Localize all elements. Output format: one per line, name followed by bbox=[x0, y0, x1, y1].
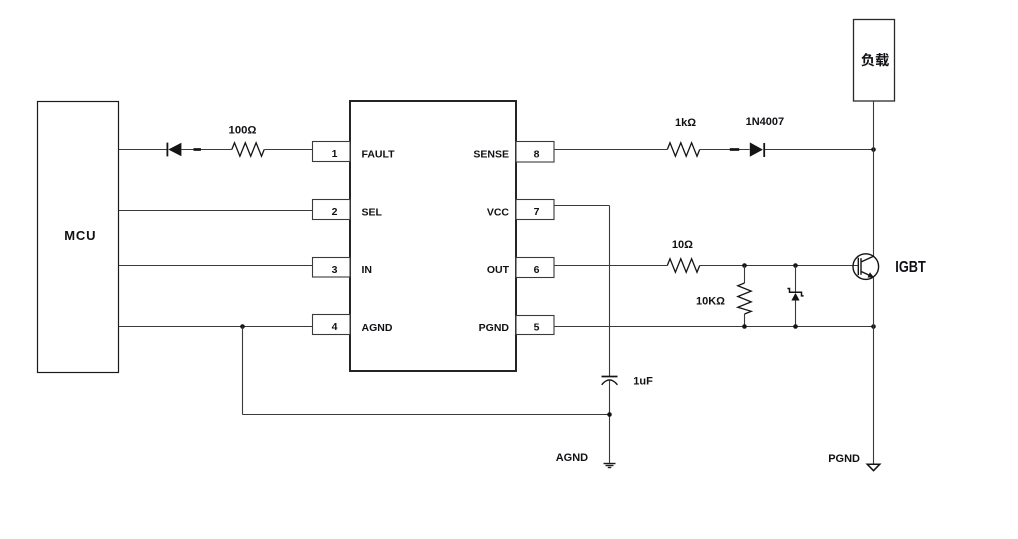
wire MCU to pin 2 (row 2) bbox=[119, 210, 313, 212]
svg-text:AGND: AGND bbox=[362, 322, 393, 334]
zener diode D3 top lead bbox=[795, 266, 797, 293]
MCU box bbox=[38, 102, 119, 373]
wire VCC vertical down to capacitor bbox=[609, 206, 611, 377]
svg-text:8: 8 bbox=[534, 148, 540, 160]
svg-text:FAULT: FAULT bbox=[362, 149, 396, 161]
wire capacitor to AGND junction bbox=[609, 380, 611, 463]
wire IGBT emitter down to PGND bbox=[873, 277, 875, 464]
junction dot D3 bottom bbox=[793, 324, 798, 329]
svg-text:5: 5 bbox=[534, 321, 540, 333]
wire pin 6 OUT to resistor R3 bbox=[554, 265, 667, 267]
svg-text:6: 6 bbox=[534, 264, 540, 276]
pin 4 box bbox=[313, 315, 351, 335]
load box bbox=[854, 20, 895, 102]
resistor R3 10ohm zigzag bbox=[667, 259, 699, 272]
svg-text:2: 2 bbox=[332, 206, 338, 218]
IGBT Q1 collector stroke bbox=[862, 256, 874, 262]
svg-text:10KΩ: 10KΩ bbox=[696, 296, 725, 308]
svg-text:OUT: OUT bbox=[487, 264, 510, 276]
svg-text:1N4007: 1N4007 bbox=[746, 116, 785, 128]
svg-text:SEL: SEL bbox=[362, 207, 383, 219]
wire MCU to diode D2 (row 1) bbox=[119, 149, 167, 151]
svg-text:1: 1 bbox=[332, 148, 338, 160]
resistor R4 bottom lead bbox=[744, 314, 746, 327]
svg-text:MCU: MCU bbox=[64, 228, 96, 243]
svg-text:100Ω: 100Ω bbox=[229, 124, 257, 136]
wire pin 8 to resistor R2 (SENSE row) bbox=[554, 149, 667, 151]
AGND ground symbol bbox=[604, 464, 616, 468]
IGBT Q1 gate/base double bar bbox=[857, 258, 859, 275]
dash mark on diode D2 anode wire bbox=[194, 148, 201, 151]
wire resistor R3 to IGBT gate bbox=[700, 265, 858, 267]
zener diode D3 bottom lead bbox=[795, 301, 797, 327]
svg-text:SENSE: SENSE bbox=[473, 149, 509, 161]
wire diode D1 to load line bbox=[765, 149, 874, 151]
pin 6 box bbox=[516, 258, 554, 278]
resistor R4 zigzag bbox=[738, 283, 751, 314]
diode D2 (points left) cathode bar bbox=[166, 143, 168, 157]
wire resistor R2 to diode D1 bbox=[700, 149, 750, 151]
svg-text:3: 3 bbox=[332, 264, 338, 276]
junction dot PGND/emitter bbox=[871, 324, 876, 329]
junction dot R4 top bbox=[742, 263, 747, 268]
resistor R1 100ohm zigzag bbox=[232, 143, 264, 156]
capacitor C1 top plate bbox=[602, 376, 618, 378]
IGBT Q1 emitter arrowhead bbox=[868, 272, 875, 277]
svg-text:1uF: 1uF bbox=[633, 375, 653, 387]
wire pin 7 VCC to corner bbox=[554, 205, 610, 207]
svg-text:10Ω: 10Ω bbox=[672, 239, 693, 251]
resistor R4 10K vertical: top lead bbox=[744, 266, 746, 284]
zener diode D3 cathode bar with bent ends bbox=[787, 289, 803, 296]
svg-text:AGND: AGND bbox=[556, 452, 588, 464]
junction dot on AGND wire bbox=[240, 324, 245, 329]
wire AGND branch vertical bbox=[242, 327, 244, 415]
pin 5 box bbox=[516, 316, 554, 335]
pin 1 box bbox=[313, 142, 351, 162]
IGBT Q1 circle bbox=[853, 254, 879, 280]
diode D2 triangle bbox=[168, 143, 181, 157]
svg-text:VCC: VCC bbox=[487, 207, 510, 219]
pin 7 box bbox=[516, 200, 554, 220]
wire load to IGBT collector bbox=[873, 101, 875, 257]
junction dot R4 bottom bbox=[742, 324, 747, 329]
IC U1 box bbox=[350, 101, 516, 371]
pin 3 box bbox=[313, 258, 351, 278]
wire pin 5 PGND row bbox=[554, 326, 874, 328]
wire diode D2 to resistor R1 bbox=[181, 149, 232, 151]
junction dot AGND net bbox=[607, 412, 612, 417]
svg-text:7: 7 bbox=[534, 206, 540, 218]
svg-text:PGND: PGND bbox=[828, 453, 860, 465]
capacitor C1 curved plate bbox=[602, 380, 618, 385]
diode D1 1N4007 triangle (points right) bbox=[750, 142, 763, 156]
wire resistor R1 to pin 1 bbox=[264, 149, 312, 151]
zener diode D3 triangle (points up) bbox=[791, 293, 799, 301]
PGND ground arrow bbox=[867, 464, 880, 471]
dash mark on diode D1 anode wire bbox=[730, 148, 739, 151]
junction dot D3 top bbox=[793, 263, 798, 268]
pin 8 box bbox=[516, 142, 554, 163]
diode D1 cathode bar bbox=[763, 143, 765, 157]
svg-text:IN: IN bbox=[362, 264, 373, 276]
svg-text:4: 4 bbox=[332, 321, 338, 333]
wire MCU to pin 3 (row 3) bbox=[119, 265, 313, 267]
svg-text:IGBT: IGBT bbox=[895, 259, 926, 276]
junction dot SENSE/load bbox=[871, 147, 876, 152]
svg-text:1kΩ: 1kΩ bbox=[675, 117, 696, 129]
wire AGND branch horizontal bbox=[243, 414, 610, 416]
resistor R2 1k zigzag bbox=[667, 143, 699, 156]
IGBT Q1 emitter stroke bbox=[862, 272, 874, 278]
svg-text:PGND: PGND bbox=[479, 322, 510, 334]
wire MCU to pin 4 (row 4) bbox=[119, 326, 313, 328]
pin 2 box bbox=[313, 200, 351, 220]
load label (Chinese characters drawn as paths) bbox=[861, 53, 889, 66]
